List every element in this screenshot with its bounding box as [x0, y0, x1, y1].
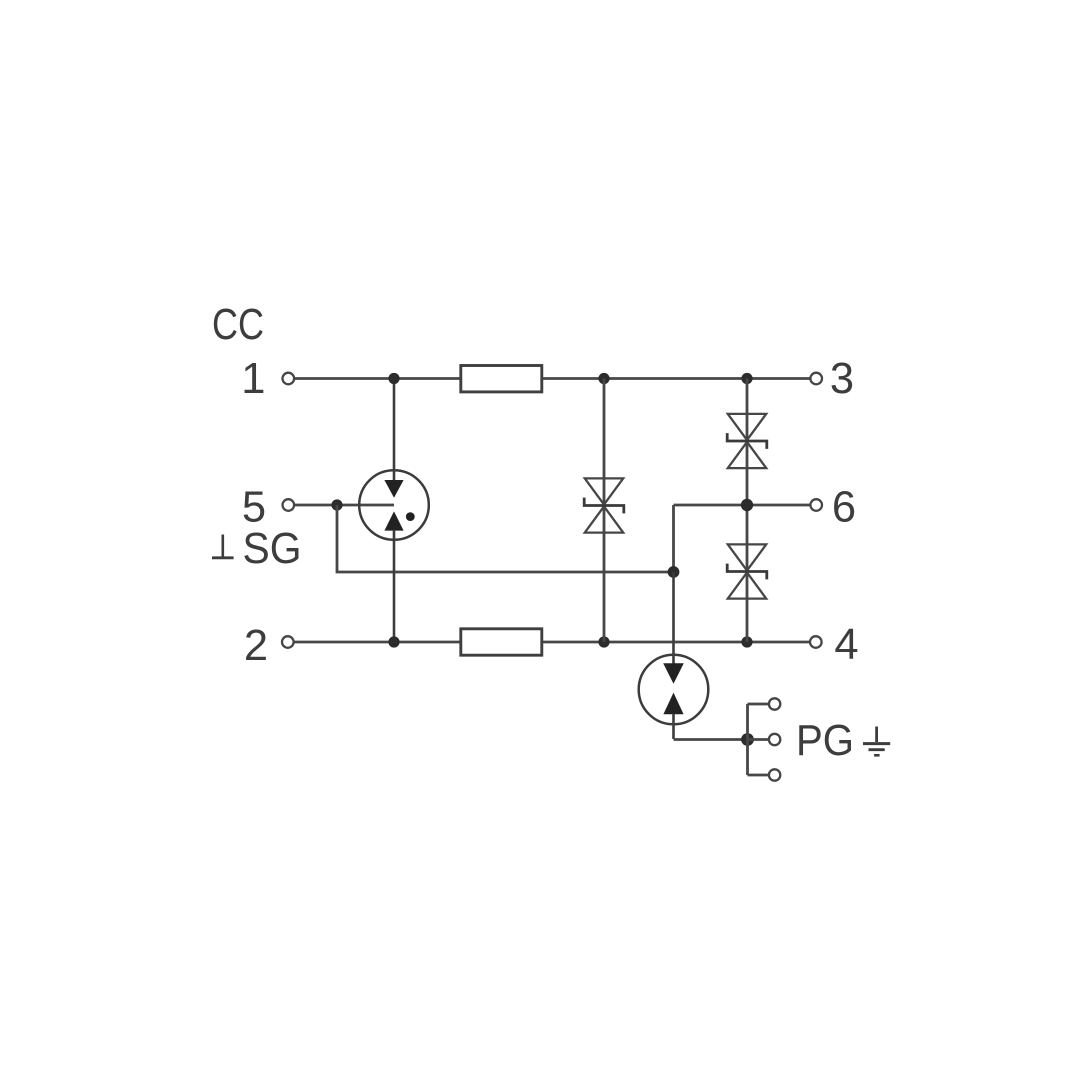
junction wire2/arrester F1	[388, 636, 399, 647]
wire node6 down to SG junction	[672, 505, 675, 572]
svg-text:6: 6	[832, 484, 856, 532]
svg-text:CC: CC	[212, 301, 264, 349]
junction wire1/arrester F1	[388, 373, 399, 384]
svg-text:1: 1	[241, 355, 265, 403]
junction wire6/suppressors	[741, 499, 753, 511]
terminal 3	[810, 373, 822, 385]
terminal PG b	[769, 734, 780, 745]
terminal PG a	[769, 698, 780, 709]
junction pin5/SG bus	[331, 499, 342, 510]
svg-text:SG: SG	[243, 525, 302, 573]
wire node6 to terminal 6	[674, 504, 811, 507]
wire SG bus	[337, 505, 674, 572]
junction node6/SG	[668, 566, 680, 578]
junction wire2/suppressor V1	[598, 636, 609, 647]
terminal 2	[282, 636, 294, 648]
earth ground symbol	[863, 727, 890, 756]
junction wire2/suppressor V3	[741, 636, 752, 647]
resistor R1	[461, 366, 542, 392]
arrester F2 (2-electrode gas discharge tube)	[639, 572, 709, 739]
wire F2 to PG	[674, 738, 748, 741]
resistor R2	[461, 629, 542, 655]
arrester F1 (3-electrode gas discharge tube)	[359, 384, 429, 637]
wire pin5 electrode into F1	[295, 504, 394, 507]
wire right column	[746, 379, 749, 643]
terminal 4	[810, 636, 822, 648]
svg-text:2: 2	[244, 622, 268, 670]
suppressor V1 (bidirectional TVS)	[584, 379, 624, 643]
terminal 5	[283, 499, 295, 511]
svg-text:PG: PG	[796, 717, 854, 765]
wire PG bracket	[748, 704, 770, 775]
svg-text:4: 4	[834, 621, 858, 669]
wire R1 to terminal 3	[543, 377, 811, 380]
svg-text:3: 3	[830, 355, 854, 403]
junction wire1/suppressor V1	[598, 373, 609, 384]
wire pin2 to R2	[294, 641, 460, 644]
suppressor V2 (bidirectional TVS)	[727, 414, 767, 468]
terminal PG c	[769, 769, 780, 780]
suppressor V3 (bidirectional TVS)	[727, 544, 767, 598]
wire pin1 to R1	[295, 377, 460, 380]
junction wire1/suppressor V2	[741, 373, 752, 384]
wire R2 to terminal 4	[543, 641, 811, 644]
terminal 6	[810, 499, 822, 511]
terminal 1	[283, 373, 295, 385]
signal ground symbol	[212, 535, 234, 558]
junction PG	[741, 733, 754, 746]
